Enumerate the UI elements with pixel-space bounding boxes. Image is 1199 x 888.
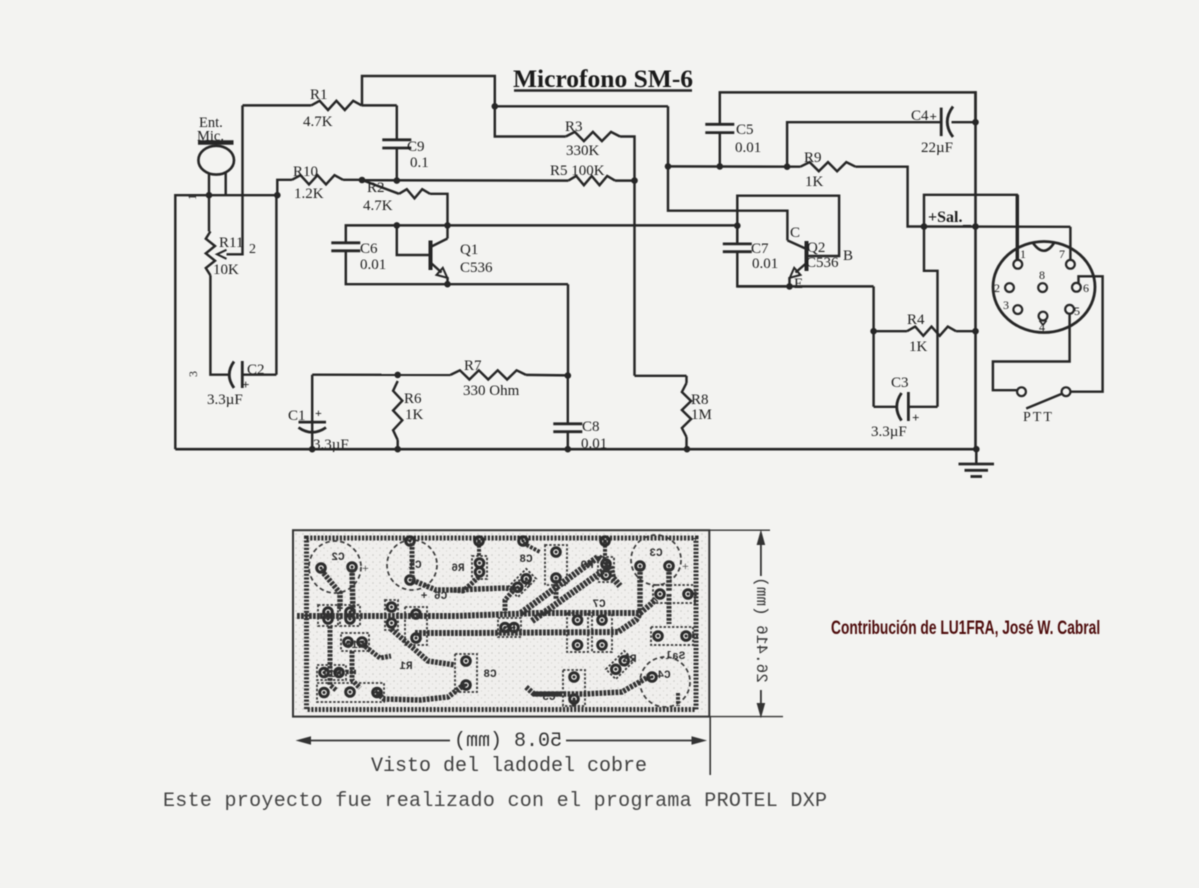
svg-text:26.416 (mm): 26.416 (mm) bbox=[752, 577, 770, 683]
potentiometer R11 bbox=[206, 195, 244, 278]
PCB dimension bottom bbox=[296, 717, 711, 775]
PCB trace left verticals bbox=[330, 626, 360, 690]
PCB small pad box bbox=[385, 600, 398, 630]
node Q1 base-rail junction bbox=[394, 222, 401, 229]
node Q2 emitter junction bbox=[786, 283, 793, 290]
PCB trace diagonal A bbox=[521, 557, 606, 613]
node C1 bottom junction bbox=[309, 446, 316, 453]
PCB trace bus1 bbox=[320, 599, 656, 616]
node Q1 collector junction bbox=[444, 222, 451, 229]
wire top-right rail bbox=[720, 92, 976, 124]
node mic pin1 junction bbox=[206, 192, 213, 199]
PCB trace border bottom bbox=[533, 692, 560, 697]
node C9-R5 junction bbox=[394, 177, 401, 184]
pin 7 bbox=[1059, 247, 1075, 269]
wire C9 top lead bbox=[396, 105, 398, 139]
svg-text:Visto del ladodel cobre: Visto del ladodel cobre bbox=[371, 755, 647, 778]
wire C5 top leg bbox=[719, 133, 721, 167]
label pin2 bbox=[249, 242, 256, 257]
label +Sal bbox=[928, 209, 972, 228]
svg-text:C1: C1 bbox=[288, 408, 306, 424]
wire mid drop x668 bbox=[668, 106, 787, 240]
svg-text:8: 8 bbox=[1039, 268, 1045, 282]
PCB resistor R7 footprint bbox=[508, 569, 536, 597]
label pin3 sideways bbox=[186, 371, 200, 377]
node ground junction bbox=[973, 446, 980, 453]
wire top mid rail bbox=[495, 105, 668, 107]
svg-text:C4: C4 bbox=[657, 670, 671, 682]
pin 1 bbox=[1013, 247, 1026, 269]
transistor Q2 bbox=[787, 225, 853, 292]
wire Q1 base link bbox=[397, 225, 448, 255]
PCB capacitor C4 footprint bbox=[640, 657, 690, 707]
wire C9 bottom lead bbox=[396, 148, 398, 181]
svg-text:R3: R3 bbox=[565, 119, 583, 135]
wire Q2 base loop bbox=[737, 196, 839, 256]
node R8 bottom junction bbox=[684, 446, 691, 453]
node R6 bottom junction bbox=[394, 446, 401, 453]
pin 4 bbox=[1039, 312, 1048, 334]
PCB trace C1 branch bbox=[412, 543, 522, 590]
svg-text:R1: R1 bbox=[310, 87, 328, 103]
label pin1 sideways bbox=[185, 194, 199, 200]
node C8 bottom junction bbox=[565, 446, 572, 453]
PCB trace C8 stub bbox=[554, 580, 559, 599]
wire C3 left leg bbox=[874, 331, 896, 407]
pin 8 bbox=[1038, 268, 1047, 292]
svg-text:C536: C536 bbox=[460, 260, 493, 276]
capacitor C6 bbox=[331, 241, 386, 273]
svg-text:C8: C8 bbox=[519, 554, 533, 566]
wire Q1 emitter rail bbox=[448, 284, 569, 376]
wire R2 right leg bbox=[430, 194, 448, 226]
svg-text:2: 2 bbox=[994, 281, 1000, 295]
svg-text:1K: 1K bbox=[805, 174, 824, 190]
node R10 drop junction bbox=[274, 192, 281, 199]
svg-text:C3: C3 bbox=[649, 548, 663, 560]
svg-text:330 Ohm: 330 Ohm bbox=[463, 383, 520, 399]
svg-text:R5 100K: R5 100K bbox=[550, 163, 605, 179]
svg-text:330K: 330K bbox=[566, 143, 600, 159]
svg-text:R1: R1 bbox=[399, 661, 413, 673]
PCB trace mid diagonal bbox=[391, 629, 455, 665]
PCB trace C3 drops bbox=[640, 568, 669, 610]
svg-text:3: 3 bbox=[1003, 298, 1009, 312]
svg-text:1: 1 bbox=[1020, 247, 1026, 261]
wire C6 bottom leg bbox=[346, 251, 448, 284]
node C4 right junction bbox=[972, 119, 979, 126]
wire pin6 to PTT bbox=[1071, 276, 1103, 391]
PCB resistor R8 footprint bbox=[606, 651, 637, 679]
svg-text:1K: 1K bbox=[909, 339, 928, 355]
svg-text:+: + bbox=[912, 410, 919, 425]
resistor R4 bbox=[874, 312, 976, 355]
svg-text:0.01: 0.01 bbox=[735, 140, 761, 156]
wire main output vertical bbox=[974, 91, 977, 449]
svg-text:C9: C9 bbox=[407, 139, 425, 155]
svg-text:22µF: 22µF bbox=[921, 140, 953, 156]
svg-text:R6: R6 bbox=[404, 391, 422, 407]
svg-text:3.3µF: 3.3µF bbox=[871, 424, 907, 440]
svg-text:C8: C8 bbox=[582, 419, 600, 435]
svg-text:3: 3 bbox=[186, 371, 200, 377]
PCB top pads bbox=[406, 537, 415, 546]
resistor R2 bbox=[362, 180, 430, 214]
node +Sal left junction bbox=[921, 223, 928, 230]
svg-text:C7: C7 bbox=[751, 241, 769, 257]
node C7 junction bbox=[734, 222, 741, 229]
PCB left entry block bbox=[297, 605, 384, 702]
svg-text:5: 5 bbox=[1074, 304, 1080, 318]
node R4 right junction bbox=[972, 328, 979, 335]
capacitor C4 bbox=[911, 107, 976, 157]
wire R3 left leg bbox=[495, 106, 566, 136]
wire C6 top lead bbox=[346, 225, 397, 242]
svg-text:4.7K: 4.7K bbox=[363, 198, 393, 214]
svg-text:C7: C7 bbox=[592, 599, 605, 611]
wire R7 rail bbox=[312, 373, 568, 376]
wire C7 bottom leg bbox=[737, 252, 789, 287]
PCB board outline bbox=[293, 530, 709, 716]
switch PTT bbox=[1017, 387, 1070, 425]
svg-text:R8: R8 bbox=[691, 392, 709, 408]
svg-text:+: + bbox=[362, 561, 369, 575]
label Visto del lado del cobre bbox=[371, 755, 647, 778]
microphone Ent Mic bbox=[198, 143, 234, 196]
wire bottom rail bbox=[175, 448, 976, 451]
svg-text:3.3µF: 3.3µF bbox=[207, 392, 243, 408]
svg-text:7: 7 bbox=[1059, 247, 1065, 261]
svg-text:Microfono SM-6: Microfono SM-6 bbox=[513, 64, 693, 93]
PCB trace R11 stub bbox=[346, 670, 356, 675]
svg-text:R10: R10 bbox=[293, 164, 318, 180]
node Q1 emitter junction bbox=[444, 281, 451, 288]
PCB trace R6 branch bbox=[452, 577, 479, 591]
svg-text:C4: C4 bbox=[911, 108, 929, 124]
pin 5 bbox=[1065, 304, 1080, 318]
wire C1 top leg bbox=[311, 375, 313, 450]
PCB trace bottom right bbox=[526, 676, 650, 694]
svg-text:C6 +: C6 + bbox=[420, 591, 447, 603]
svg-text:50.8 (mm): 50.8 (mm) bbox=[454, 730, 562, 753]
transistor Q1 bbox=[431, 225, 494, 284]
PCB capacitor C6 footprint bbox=[405, 591, 447, 645]
resistor R7 bbox=[451, 358, 527, 399]
svg-text:6: 6 bbox=[1083, 281, 1089, 295]
capacitor C3 bbox=[871, 375, 938, 440]
svg-text:1.2K: 1.2K bbox=[294, 186, 324, 202]
PCB trace diagonal B bbox=[532, 566, 620, 621]
svg-text:4.7K: 4.7K bbox=[303, 114, 333, 130]
svg-text:R9: R9 bbox=[804, 150, 822, 166]
PCB trace C2 branches bbox=[321, 569, 353, 614]
resistor R8 bbox=[682, 376, 712, 449]
label Contribucion LU1FRA bbox=[831, 617, 1100, 639]
svg-text:C2: C2 bbox=[331, 552, 344, 564]
svg-text:C: C bbox=[790, 225, 800, 241]
node R5-R3 junction bbox=[631, 177, 638, 184]
pin 2 bbox=[994, 281, 1014, 295]
svg-text:C3: C3 bbox=[891, 375, 909, 391]
wire R3 right leg bbox=[620, 137, 635, 181]
wire R5 junction drop bbox=[633, 181, 635, 376]
svg-text:1K: 1K bbox=[405, 407, 424, 423]
wire C2 right leg bbox=[242, 195, 276, 375]
wire R11 bottom to C2 bbox=[210, 275, 228, 374]
resistor R6 bbox=[393, 381, 423, 449]
svg-text:+: + bbox=[682, 559, 689, 573]
wire left rail bbox=[175, 195, 277, 449]
PCB capacitor C3 footprint bbox=[631, 535, 689, 585]
capacitor C9 bbox=[382, 139, 428, 171]
PCB right pad row bbox=[653, 585, 698, 603]
svg-text:Q2: Q2 bbox=[807, 240, 825, 256]
wire +Sal box bbox=[924, 195, 1070, 260]
wire pin5 to PTT bbox=[993, 314, 1070, 390]
PCB resistor R9 footprint bbox=[580, 537, 614, 582]
PCB trace R7 stub bbox=[505, 591, 513, 613]
resistor R1 bbox=[303, 87, 362, 130]
svg-text:B: B bbox=[843, 248, 853, 264]
svg-text:2: 2 bbox=[249, 242, 256, 257]
resistor R9 bbox=[800, 150, 855, 190]
svg-text:C8: C8 bbox=[483, 669, 497, 681]
PCB label R1 bbox=[399, 661, 413, 673]
svg-text:0.1: 0.1 bbox=[410, 155, 429, 171]
title Microfono SM-6 bbox=[513, 64, 693, 93]
node R6 top junction bbox=[394, 372, 401, 379]
node R4 left junction bbox=[870, 328, 877, 335]
wire top-left rail bbox=[362, 76, 495, 106]
PCB resistor R6 footprint bbox=[451, 537, 487, 579]
node R9-C4 junction bbox=[784, 163, 791, 170]
capacitor C2 bbox=[207, 361, 265, 408]
pin 6 bbox=[1072, 281, 1089, 295]
wire collector out rail bbox=[448, 224, 738, 226]
wire C7 top lead bbox=[736, 226, 738, 244]
capacitor C1 bbox=[288, 406, 349, 453]
node R10-R2 junction bbox=[359, 177, 366, 184]
svg-text:4: 4 bbox=[1039, 320, 1045, 334]
connector DIN socket bbox=[993, 242, 1095, 333]
capacitor C7 bbox=[723, 241, 778, 272]
capacitor C5 bbox=[705, 122, 761, 156]
svg-text:+: + bbox=[930, 109, 937, 124]
ground bbox=[959, 449, 995, 476]
svg-text:_: _ bbox=[962, 211, 972, 228]
node top mid junction bbox=[492, 103, 499, 110]
wire C4 left leg bbox=[787, 122, 941, 167]
svg-text:Sal.: Sal. bbox=[659, 651, 685, 663]
node x668 junction bbox=[665, 163, 672, 170]
svg-text:R4: R4 bbox=[907, 312, 925, 328]
svg-text:Q1: Q1 bbox=[460, 242, 478, 258]
wire pin1 lead bbox=[1017, 195, 1019, 260]
svg-text:R7: R7 bbox=[464, 358, 482, 374]
wire C5-R9 rail bbox=[668, 165, 800, 168]
PCB capacitor C5 footprint bbox=[542, 670, 585, 706]
svg-text:R2: R2 bbox=[367, 180, 385, 196]
wire R10 to R5 rail bbox=[343, 179, 568, 182]
svg-text:+: + bbox=[315, 406, 322, 420]
PCB capacitor C8 footprint bbox=[519, 537, 567, 585]
node C5 junction bbox=[717, 163, 724, 170]
svg-text:10K: 10K bbox=[213, 262, 239, 278]
wire R1 to C9 rail bbox=[243, 104, 397, 106]
wire R10 left leg bbox=[277, 180, 292, 195]
svg-text:R11: R11 bbox=[219, 235, 243, 251]
PCB trace bus2 bbox=[415, 612, 641, 633]
wire R1 left drop to R11 wiper bbox=[227, 105, 243, 254]
label Ent Mic bbox=[197, 115, 224, 145]
svg-text:PTT: PTT bbox=[1023, 410, 1054, 425]
node +Sal right junction bbox=[972, 223, 979, 230]
svg-text:1M: 1M bbox=[691, 407, 712, 423]
svg-text:C536: C536 bbox=[806, 255, 839, 271]
svg-text:R6: R6 bbox=[451, 563, 464, 575]
wire R8 branch bbox=[635, 375, 687, 377]
PCB capacitor C7 footprint bbox=[567, 599, 612, 652]
resistor R5 bbox=[550, 163, 635, 185]
PCB trace C5 stub bbox=[572, 700, 577, 707]
svg-text:+: + bbox=[242, 377, 249, 392]
svg-text:C5: C5 bbox=[736, 122, 754, 138]
PCB capacitor C2 footprint bbox=[309, 541, 369, 593]
PCB trace bottom left bbox=[375, 684, 465, 700]
wire R9 right leg bbox=[856, 167, 925, 227]
PCB resistor R5 footprint bbox=[498, 618, 521, 637]
wire +Sal drop to C3 bbox=[924, 227, 938, 407]
capacitor C8 bbox=[553, 376, 607, 452]
PCB dimension right bbox=[709, 530, 783, 719]
svg-text:0.01: 0.01 bbox=[360, 257, 386, 273]
pin 3 bbox=[1003, 298, 1022, 314]
svg-text:+Sal.: +Sal. bbox=[928, 209, 962, 226]
PCB capacitor C8b footprint bbox=[455, 654, 497, 692]
svg-text:Este proyecto fue realizado co: Este proyecto fue realizado con el progr… bbox=[163, 790, 827, 813]
svg-text:R8: R8 bbox=[623, 654, 637, 666]
PCB trace R10 branch bbox=[362, 644, 391, 658]
resistor R10 bbox=[292, 164, 343, 202]
wire Q2 emitter rail bbox=[737, 286, 873, 331]
svg-text:Contribución de LU1FRA, José W: Contribución de LU1FRA, José W. Cabral bbox=[831, 617, 1100, 639]
svg-text:C6: C6 bbox=[360, 241, 378, 257]
node C8 top junction bbox=[565, 372, 572, 379]
svg-text:E: E bbox=[794, 276, 803, 292]
PCB Sal pads bbox=[651, 627, 698, 663]
svg-text:0.01: 0.01 bbox=[752, 256, 778, 272]
PCB capacitor C1 footprint bbox=[387, 540, 437, 590]
PCB trace right mid stub bbox=[667, 594, 672, 624]
resistor R3 bbox=[565, 119, 620, 159]
svg-text:3.3µF: 3.3µF bbox=[313, 437, 349, 453]
label Este proyecto bbox=[163, 790, 827, 813]
